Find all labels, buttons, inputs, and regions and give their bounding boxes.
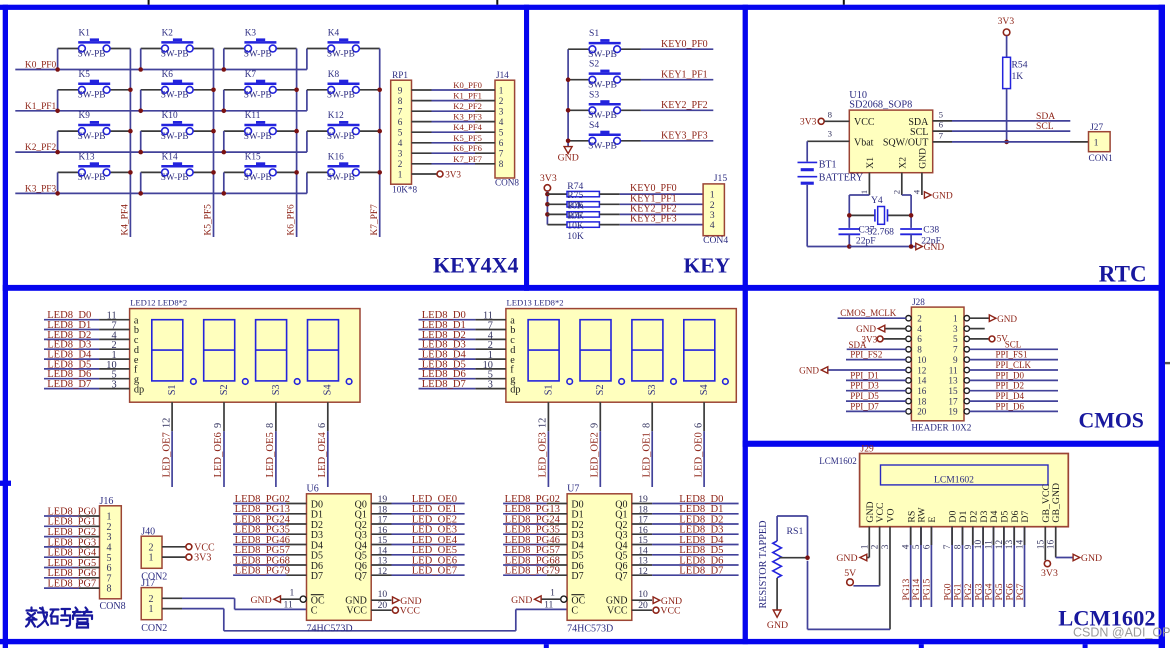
svg-text:PPI_D5: PPI_D5 bbox=[850, 391, 879, 401]
wire SQW/OUT pin7 to J27 bbox=[933, 141, 952, 143]
svg-text:GND: GND bbox=[918, 148, 929, 169]
svg-text:SW-PB: SW-PB bbox=[161, 91, 189, 101]
svg-text:LED_OE4: LED_OE4 bbox=[317, 431, 328, 477]
svg-text:1: 1 bbox=[1094, 137, 1099, 148]
junction bbox=[847, 213, 852, 218]
wire SDA bbox=[847, 348, 906, 350]
svg-text:11: 11 bbox=[544, 600, 553, 611]
power port GND at J29 pin16 bbox=[1073, 554, 1080, 561]
svg-text:18: 18 bbox=[917, 396, 927, 406]
svg-text:K9: K9 bbox=[79, 111, 91, 121]
wire LED8_D7 to LED12 pin 3 bbox=[44, 388, 99, 390]
J28 right pin 9 circle bbox=[964, 357, 969, 362]
wire J29 pin11 bbox=[993, 527, 995, 607]
svg-text:PG0: PG0 bbox=[942, 583, 953, 600]
wire button left stub bbox=[140, 172, 142, 193]
wire LED8_PG35 input bbox=[233, 533, 286, 535]
svg-text:J40: J40 bbox=[141, 526, 155, 537]
svg-text:K4_PF4: K4_PF4 bbox=[121, 204, 131, 236]
wire LED8_D4 to LED13 pin 1 bbox=[419, 358, 476, 360]
junction bbox=[222, 67, 227, 72]
junction bbox=[128, 129, 133, 134]
svg-text:RP1: RP1 bbox=[392, 70, 408, 80]
power port VCC at U7 pin 20 bbox=[653, 607, 659, 613]
power port VCC at U6 pin 20 bbox=[392, 607, 398, 613]
pushbutton K14 bbox=[161, 165, 193, 168]
svg-text:10K*8: 10K*8 bbox=[392, 184, 417, 194]
svg-text:20: 20 bbox=[638, 600, 648, 611]
wire RP1 pin9 to J14 pin1 bbox=[412, 89, 432, 91]
junction bbox=[545, 212, 550, 217]
wire J29 pin2 to 5V bbox=[879, 527, 881, 586]
svg-text:10K: 10K bbox=[567, 221, 584, 232]
svg-text:3: 3 bbox=[953, 324, 958, 334]
wire U6 output Q1 bbox=[371, 513, 391, 515]
svg-text:K3_PF3: K3_PF3 bbox=[25, 185, 57, 195]
wire row bus K1_PF1 bbox=[15, 110, 307, 112]
svg-text:5: 5 bbox=[939, 109, 944, 119]
wire S4 to net bbox=[641, 140, 713, 142]
svg-text:1: 1 bbox=[290, 587, 295, 598]
LED12 decimal point 1 bbox=[191, 379, 197, 385]
wire LED8_PG46 input bbox=[503, 544, 547, 546]
wire J28 pin3 stub bbox=[970, 328, 985, 330]
pushbutton K5 bbox=[78, 82, 110, 85]
junction bbox=[55, 109, 60, 114]
svg-text:GND: GND bbox=[932, 192, 953, 202]
svg-text:4: 4 bbox=[917, 324, 922, 334]
svg-text:1: 1 bbox=[953, 314, 958, 324]
svg-text:K1_PF1: K1_PF1 bbox=[453, 91, 482, 101]
wire LED12 select pin 6 / LED_OE4 bbox=[327, 402, 329, 431]
wire LED12 select pin 9 / LED_OE6 bbox=[223, 402, 225, 431]
bottom border bbox=[0, 639, 1165, 644]
wire PPI_FS2 bbox=[846, 359, 906, 361]
svg-text:K3_PF3: K3_PF3 bbox=[453, 112, 482, 122]
svg-text:R54: R54 bbox=[1012, 60, 1028, 71]
power port GND at J28 pin12 bbox=[821, 367, 828, 374]
wire Vbat pin 3 to battery bbox=[807, 140, 849, 142]
wire U6 OC to GND bbox=[281, 598, 301, 600]
J28 right pin 7 circle bbox=[964, 347, 969, 352]
svg-text:RESISTOR TAPPED: RESISTOR TAPPED bbox=[758, 521, 769, 609]
wire LED8_PG79 input bbox=[233, 574, 286, 576]
wire U6 output Q2 bbox=[371, 523, 391, 525]
wire J29 pin9 bbox=[972, 527, 974, 607]
LED13 seven-segment digit 3 bbox=[632, 320, 663, 381]
svg-text:2: 2 bbox=[917, 314, 922, 324]
svg-text:VCC: VCC bbox=[875, 502, 886, 522]
svg-text:6: 6 bbox=[317, 423, 328, 428]
svg-text:RW: RW bbox=[917, 507, 928, 523]
svg-text:SW-PB: SW-PB bbox=[78, 91, 106, 101]
LED12 decimal point 3 bbox=[294, 379, 300, 385]
connector J14 bbox=[495, 80, 515, 178]
next-row panel divider stub 3 bbox=[1083, 644, 1088, 648]
wire J29 pin3 (VO) to RS1 tap bbox=[889, 527, 891, 630]
svg-text:D2: D2 bbox=[968, 511, 979, 523]
svg-text:11: 11 bbox=[949, 365, 958, 375]
svg-text:PPI_D0: PPI_D0 bbox=[996, 370, 1025, 380]
wire row bus K2_PF2 bbox=[15, 151, 307, 153]
svg-text:8: 8 bbox=[265, 423, 276, 428]
power port 3V3 at J28 pin6 bbox=[877, 336, 883, 342]
pushbutton K7 bbox=[244, 82, 276, 85]
junction bbox=[138, 109, 143, 114]
svg-text:LED_OE5: LED_OE5 bbox=[265, 432, 276, 477]
connector J29 LCM1602 bbox=[860, 454, 1069, 527]
IC U7 74HC573D bbox=[567, 494, 632, 621]
wire PPI_CLK bbox=[970, 369, 1059, 371]
svg-text:1K: 1K bbox=[1012, 71, 1024, 82]
wire resistor row 4 to J15 bbox=[620, 224, 703, 226]
svg-text:22pF: 22pF bbox=[856, 236, 876, 247]
resistor R75 body bbox=[547, 203, 567, 205]
pushbutton K16 bbox=[328, 165, 360, 168]
svg-text:3V3: 3V3 bbox=[1041, 568, 1058, 579]
svg-text:9: 9 bbox=[590, 423, 601, 428]
wire ground rail of crystal caps bbox=[849, 246, 915, 248]
LED13 decimal point 3 bbox=[671, 379, 677, 385]
LED12 seven-segment digit 1 bbox=[152, 320, 183, 381]
svg-text:SCL: SCL bbox=[1005, 339, 1022, 349]
svg-text:10: 10 bbox=[917, 355, 927, 365]
svg-text:K8: K8 bbox=[328, 70, 340, 80]
svg-text:Q7: Q7 bbox=[615, 571, 627, 582]
svg-text:1: 1 bbox=[859, 190, 869, 194]
svg-text:8: 8 bbox=[828, 110, 833, 120]
svg-text:CSDN @ADI_OP: CSDN @ADI_OP bbox=[1073, 626, 1170, 640]
capacitor C38 bbox=[900, 228, 922, 230]
wire button left stub bbox=[223, 90, 225, 111]
pushbutton K10 bbox=[161, 124, 193, 127]
junction bbox=[128, 170, 133, 175]
svg-text:PPI_D1: PPI_D1 bbox=[850, 370, 879, 380]
wire LED8_D2 to LED12 pin 4 bbox=[44, 338, 99, 340]
junction bbox=[566, 139, 571, 144]
J28 left pin 12 circle bbox=[906, 367, 911, 372]
wire resistor row 3 to J15 bbox=[620, 213, 703, 215]
svg-text:5: 5 bbox=[398, 128, 403, 138]
wire GND pin4 bbox=[885, 328, 906, 330]
svg-text:SCL: SCL bbox=[910, 127, 928, 138]
junction bbox=[211, 88, 216, 93]
svg-text:3: 3 bbox=[488, 380, 493, 391]
wire SDA net bbox=[933, 120, 952, 122]
resistor R74 body bbox=[547, 193, 567, 195]
wire button left stub bbox=[223, 172, 225, 193]
junction bbox=[545, 192, 550, 197]
junction bbox=[909, 213, 914, 218]
wire PPI_D5 bbox=[846, 400, 906, 402]
wire S-button left rail bbox=[567, 49, 569, 146]
svg-text:KEY3_PF3: KEY3_PF3 bbox=[630, 214, 677, 225]
J28 left pin 18 circle bbox=[906, 398, 911, 403]
LED13 decimal point 2 bbox=[619, 379, 625, 385]
pushbutton S4 bbox=[589, 133, 621, 136]
svg-text:S3: S3 bbox=[647, 384, 658, 395]
display LED13 LED8*2 body bbox=[506, 309, 736, 403]
wire LED8_D6 to LED13 pin 5 bbox=[419, 378, 476, 380]
svg-text:S2: S2 bbox=[219, 384, 230, 395]
power port GND at J29 pin1 bbox=[860, 554, 867, 561]
svg-text:KEY4X4: KEY4X4 bbox=[433, 252, 519, 277]
pushbutton K13 bbox=[78, 165, 110, 168]
wire LED8_PG1 to J16 bbox=[44, 525, 79, 527]
svg-text:8: 8 bbox=[917, 345, 922, 355]
wire button left stub bbox=[140, 49, 142, 70]
svg-text:PG14: PG14 bbox=[911, 578, 922, 600]
svg-text:8: 8 bbox=[641, 423, 652, 428]
wire LED13 select pin 9 / LED_OE2 bbox=[599, 402, 601, 431]
svg-text:SW-PB: SW-PB bbox=[78, 173, 106, 183]
svg-text:3V3: 3V3 bbox=[540, 173, 557, 184]
wire PPI_D2 bbox=[970, 390, 1059, 392]
wire LED12 select pin 8 / LED_OE5 bbox=[275, 402, 277, 431]
wire LED8_PG02 input bbox=[233, 503, 286, 505]
svg-text:GND: GND bbox=[767, 620, 788, 631]
wire PPI_D3 bbox=[846, 390, 906, 392]
power port GND at U7 OC bbox=[535, 596, 542, 603]
wire row bus K3_PF3 bbox=[15, 192, 307, 194]
svg-text:CON8: CON8 bbox=[100, 601, 126, 612]
junction bbox=[377, 88, 382, 93]
svg-text:HEADER 10X2: HEADER 10X2 bbox=[911, 423, 971, 433]
wire U6 output Q0 bbox=[371, 503, 391, 505]
next-row panel divider stub 2 bbox=[919, 644, 924, 648]
power port GND at U6 OC bbox=[274, 596, 281, 603]
svg-text:K3: K3 bbox=[245, 29, 257, 39]
pushbutton S1 bbox=[589, 42, 621, 45]
top edge sheet tick 2 bbox=[496, 0, 498, 5]
svg-text:2: 2 bbox=[398, 159, 403, 169]
wire J17 pin1 to U7 C pin bbox=[162, 608, 182, 610]
svg-text:KEY: KEY bbox=[684, 254, 731, 278]
svg-text:10: 10 bbox=[378, 589, 388, 600]
wire resistor row 1 to J15 bbox=[620, 193, 703, 195]
svg-text:C: C bbox=[311, 605, 318, 616]
svg-text:LED_OE6: LED_OE6 bbox=[213, 432, 224, 477]
svg-text:SW-PB: SW-PB bbox=[588, 141, 617, 152]
svg-text:Q7: Q7 bbox=[355, 571, 367, 582]
svg-text:2: 2 bbox=[891, 190, 901, 194]
svg-text:13: 13 bbox=[948, 376, 958, 386]
J28 right pin 5 circle bbox=[964, 336, 969, 341]
svg-text:S2: S2 bbox=[595, 384, 606, 395]
wire button left stub bbox=[57, 49, 59, 70]
svg-text:3: 3 bbox=[111, 380, 116, 391]
svg-text:PPI_D3: PPI_D3 bbox=[850, 381, 879, 391]
wire U6 output Q4 bbox=[371, 544, 391, 546]
junction bbox=[294, 88, 299, 93]
junction bbox=[222, 150, 227, 155]
wire J17 pin2 to U6 C pin bbox=[162, 597, 182, 599]
wire column K7_PF7 bbox=[379, 49, 381, 238]
svg-text:74HC573D: 74HC573D bbox=[567, 623, 613, 634]
svg-text:LED_OE7: LED_OE7 bbox=[412, 566, 457, 577]
svg-text:8: 8 bbox=[499, 159, 504, 169]
svg-text:9: 9 bbox=[213, 423, 224, 428]
wire U7 output Q0 bbox=[632, 503, 652, 505]
wire LED8_PG24 input bbox=[233, 523, 286, 525]
svg-text:SW-PB: SW-PB bbox=[244, 49, 272, 59]
power port GND below RS1 bbox=[773, 610, 781, 617]
svg-text:D7: D7 bbox=[571, 571, 583, 582]
wire LED8_PG4 to J16 bbox=[44, 556, 79, 558]
svg-text:6: 6 bbox=[939, 120, 944, 130]
svg-text:VCC: VCC bbox=[400, 606, 420, 617]
svg-text:K1: K1 bbox=[79, 29, 91, 39]
svg-text:3: 3 bbox=[499, 107, 504, 117]
wire J40 pin1 to 3V3 bbox=[162, 556, 186, 558]
power port 3V3 at J29 pin15 bbox=[1044, 561, 1050, 567]
J28 right pin 17 circle bbox=[964, 398, 969, 403]
power port GND at U7 pin 10 bbox=[653, 597, 660, 604]
svg-text:K11: K11 bbox=[245, 111, 261, 121]
svg-text:CON2: CON2 bbox=[141, 623, 167, 634]
J29 inner display rectangle bbox=[881, 465, 1049, 485]
junction bbox=[55, 67, 60, 72]
power port 5V at J28 pin5 bbox=[989, 336, 995, 342]
svg-text:8: 8 bbox=[107, 584, 112, 595]
wire U6 output Q6 bbox=[371, 564, 391, 566]
resistor R54 bbox=[1003, 57, 1011, 88]
svg-text:LED12 LED8*2: LED12 LED8*2 bbox=[130, 298, 187, 308]
U6 OC inversion bubble bbox=[300, 596, 306, 602]
svg-text:S2: S2 bbox=[589, 59, 599, 70]
wire X2 pin 2 to crystal bbox=[901, 173, 903, 195]
pushbutton K15 bbox=[244, 165, 276, 168]
wire CMOS_MCLK bbox=[838, 317, 906, 319]
svg-text:5: 5 bbox=[499, 128, 504, 138]
wire J29 pin8 bbox=[962, 527, 964, 607]
junction bbox=[377, 170, 382, 175]
svg-text:S4: S4 bbox=[699, 384, 710, 395]
svg-text:5V: 5V bbox=[844, 568, 856, 579]
wire LED8_PG2 to J16 bbox=[44, 536, 79, 538]
svg-text:SCL: SCL bbox=[1036, 121, 1054, 132]
svg-text:LED_OE0: LED_OE0 bbox=[693, 432, 704, 477]
svg-text:E: E bbox=[927, 517, 938, 523]
svg-text:J15: J15 bbox=[714, 173, 728, 184]
wire J28 pin1 to GND bbox=[970, 317, 989, 319]
wire U6 output Q5 bbox=[371, 554, 391, 556]
svg-text:3V3: 3V3 bbox=[800, 117, 817, 128]
svg-text:PPI_D4: PPI_D4 bbox=[996, 391, 1025, 401]
svg-text:KEY2_PF2: KEY2_PF2 bbox=[661, 100, 708, 111]
wire column K5_PF5 bbox=[213, 49, 215, 238]
wire LED8_PG24 input bbox=[503, 523, 547, 525]
svg-text:PPI_D2: PPI_D2 bbox=[996, 381, 1025, 391]
outer frame top border bbox=[0, 5, 1165, 10]
wire PPI_D6 bbox=[970, 410, 1059, 412]
horizontal divider between top and bottom panel rows bbox=[3, 285, 1165, 291]
svg-text:LED8_D7: LED8_D7 bbox=[47, 379, 91, 390]
LED12 seven-segment digit 4 bbox=[308, 320, 339, 381]
wire LED8_PG68 input bbox=[233, 564, 286, 566]
svg-text:K6_PF6: K6_PF6 bbox=[287, 204, 297, 236]
svg-text:9: 9 bbox=[398, 85, 403, 95]
LED13 seven-segment digit 4 bbox=[684, 320, 715, 381]
wire RP1 pin5 to J14 pin5 bbox=[412, 131, 432, 133]
wire LED8_D6 to LED12 pin 5 bbox=[44, 378, 99, 380]
junction bbox=[294, 129, 299, 134]
wire LED8_PG13 input bbox=[233, 513, 286, 515]
svg-text:BT1: BT1 bbox=[819, 160, 837, 171]
svg-text:12: 12 bbox=[638, 566, 648, 577]
svg-text:1: 1 bbox=[550, 587, 555, 598]
J28 right pin 19 circle bbox=[964, 409, 969, 414]
LED12 decimal point 4 bbox=[346, 379, 352, 385]
svg-text:6: 6 bbox=[693, 423, 704, 428]
wire U7 output Q4 bbox=[632, 544, 652, 546]
svg-text:PPI_CLK: PPI_CLK bbox=[996, 360, 1032, 370]
power port GND at pin 4 bbox=[924, 192, 931, 199]
wire 3V3 pin6 bbox=[883, 338, 906, 340]
next-row panel divider stub 1 bbox=[544, 644, 549, 648]
svg-text:LED_OE1: LED_OE1 bbox=[641, 432, 652, 477]
power port VCC at J40 pin2 bbox=[186, 544, 192, 550]
wire button left stub bbox=[57, 172, 59, 193]
wire J29 pin13 bbox=[1013, 527, 1015, 607]
svg-text:dp: dp bbox=[510, 384, 520, 395]
wire RP1 pin1 to 3V3 bbox=[412, 173, 437, 175]
svg-text:J29: J29 bbox=[861, 444, 874, 454]
wire resistor row 2 to J15 bbox=[620, 203, 703, 205]
svg-text:K16: K16 bbox=[328, 152, 344, 162]
svg-text:4: 4 bbox=[911, 189, 921, 194]
junction bbox=[211, 129, 216, 134]
svg-text:Y4: Y4 bbox=[871, 195, 883, 206]
svg-text:SW-PB: SW-PB bbox=[78, 132, 106, 142]
svg-text:J16: J16 bbox=[100, 496, 114, 507]
svg-text:3V3: 3V3 bbox=[194, 553, 211, 564]
svg-text:S1: S1 bbox=[589, 28, 599, 39]
connector J17 bbox=[141, 588, 162, 620]
connector J27 bbox=[1089, 132, 1111, 152]
svg-text:S4: S4 bbox=[323, 384, 334, 395]
wire column K6_PF6 bbox=[296, 49, 298, 238]
svg-text:8: 8 bbox=[398, 96, 403, 106]
svg-text:VCC: VCC bbox=[854, 117, 875, 128]
svg-text:K2: K2 bbox=[162, 29, 174, 39]
LED12 seven-segment digit 3 bbox=[256, 320, 287, 381]
pushbutton S2 bbox=[589, 72, 621, 75]
wire LED8_PG57 input bbox=[503, 554, 547, 556]
outer frame left border bbox=[3, 5, 8, 648]
svg-text:GND: GND bbox=[511, 595, 532, 606]
wire PPI_D4 bbox=[970, 400, 1059, 402]
svg-text:12: 12 bbox=[538, 418, 549, 428]
panel divider KEY/RTC vertical bbox=[743, 5, 748, 645]
pushbutton K3 bbox=[244, 41, 276, 44]
svg-text:GND: GND bbox=[924, 243, 945, 253]
svg-text:3: 3 bbox=[828, 129, 833, 139]
wire LED8_D7 to LED13 pin 3 bbox=[419, 388, 476, 390]
wire J29 pin14 bbox=[1024, 527, 1026, 607]
junction bbox=[128, 88, 133, 93]
svg-text:6: 6 bbox=[499, 138, 504, 148]
J28 left pin 8 circle bbox=[906, 347, 911, 352]
wire S1 to net bbox=[641, 48, 713, 50]
wire 3V3 to R54 bbox=[1006, 36, 1008, 58]
svg-text:12: 12 bbox=[917, 365, 927, 375]
wire RP1 pin3 to J14 pin7 bbox=[412, 152, 432, 154]
wire J29 pin5 bbox=[920, 527, 922, 607]
svg-text:LCM1602: LCM1602 bbox=[934, 475, 974, 486]
J28 right pin 1 circle bbox=[964, 316, 969, 321]
svg-text:C37: C37 bbox=[858, 225, 874, 236]
